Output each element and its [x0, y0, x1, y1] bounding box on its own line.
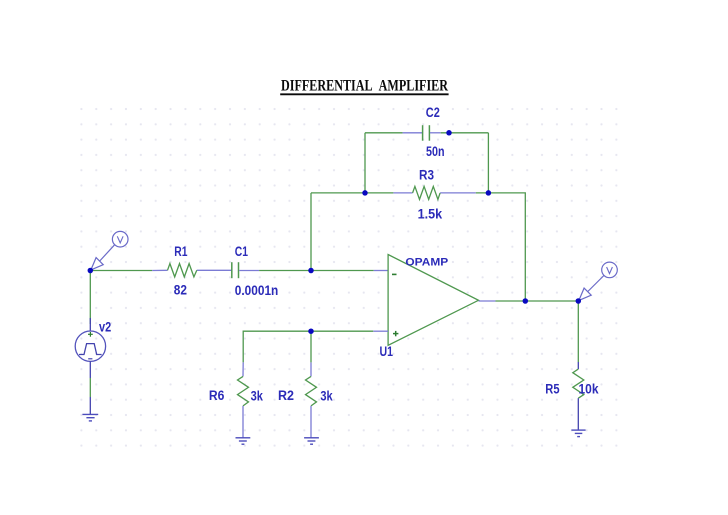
svg-text:R1: R1 — [174, 244, 188, 259]
node output junction — [523, 298, 529, 304]
wire C2 right to loop corner — [441, 132, 489, 134]
wire output stub to output node — [496, 300, 526, 302]
voltage source v2 — [75, 318, 105, 378]
node feedback left — [362, 190, 368, 196]
resistor R2 — [306, 362, 317, 437]
wire minus node to op-amp stub — [311, 270, 374, 272]
svg-text:50n: 50n — [426, 144, 445, 159]
svg-text:DIFFERENTIAL AMPLIFIER: DIFFERENTIAL AMPLIFIER — [281, 77, 448, 94]
svg-text:U1: U1 — [380, 344, 394, 359]
node probe junction right — [576, 298, 582, 304]
wire output node to probe node — [525, 300, 578, 302]
svg-text:0.0001n: 0.0001n — [235, 283, 278, 298]
wire minus node up to feedback — [310, 193, 312, 271]
wire plus horizontal — [243, 331, 373, 362]
voltage probe V1 at input — [91, 231, 128, 270]
node input junction — [88, 268, 94, 274]
svg-text:10k: 10k — [579, 382, 599, 397]
resistor R1 — [152, 264, 231, 277]
wire input node to R1 — [90, 270, 152, 272]
wire op-amp output stub — [479, 300, 496, 302]
node C2 right — [446, 130, 452, 136]
resistor R6 — [238, 362, 249, 437]
wire feedback left horizontal — [311, 192, 365, 194]
capacitor C1 — [232, 262, 259, 278]
svg-text:OPAMP: OPAMP — [405, 256, 448, 268]
node minus net junction — [308, 268, 314, 274]
node plus net junction — [308, 328, 314, 334]
svg-text:3k: 3k — [251, 388, 264, 403]
svg-text:C2: C2 — [426, 105, 440, 120]
title DIFFERENTIAL AMPLIFIER — [280, 77, 448, 94]
wire input node down to v2 — [89, 271, 91, 325]
svg-text:C1: C1 — [235, 244, 249, 259]
svg-text:3k: 3k — [320, 388, 333, 403]
wire op-amp minus pin stub — [374, 270, 388, 272]
wire R2 top lead down from plus node — [310, 331, 312, 362]
op-amp U1 — [388, 255, 478, 346]
ground below R6 — [236, 438, 251, 444]
voltage probe V2 at output — [579, 262, 617, 300]
node feedback right — [486, 190, 492, 196]
svg-text:R5: R5 — [545, 382, 560, 397]
ground below R2 — [304, 438, 319, 444]
wire C2 top left horizontal — [365, 132, 403, 134]
wire C2 loop right vertical — [487, 133, 489, 193]
svg-text:1.5k: 1.5k — [418, 206, 443, 221]
ground below v2 — [82, 414, 98, 421]
svg-text:R6: R6 — [209, 388, 225, 403]
svg-text:v2: v2 — [99, 319, 111, 334]
capacitor C2 — [403, 125, 441, 141]
wire C1 to minus node — [259, 270, 311, 272]
resistor R3 — [365, 186, 476, 199]
resistor R5 — [573, 362, 584, 430]
svg-text:R2: R2 — [278, 388, 294, 403]
wire R3 right to output corner — [476, 193, 526, 301]
svg-text:R3: R3 — [419, 167, 434, 182]
ground below R5 — [571, 430, 585, 437]
svg-text:82: 82 — [174, 283, 187, 298]
wire probe node down to R5 — [577, 301, 579, 362]
wire C2 loop left vertical — [364, 133, 366, 193]
wire op-amp plus pin stub — [373, 330, 388, 332]
wire v2 bottom to ground — [89, 378, 91, 397]
